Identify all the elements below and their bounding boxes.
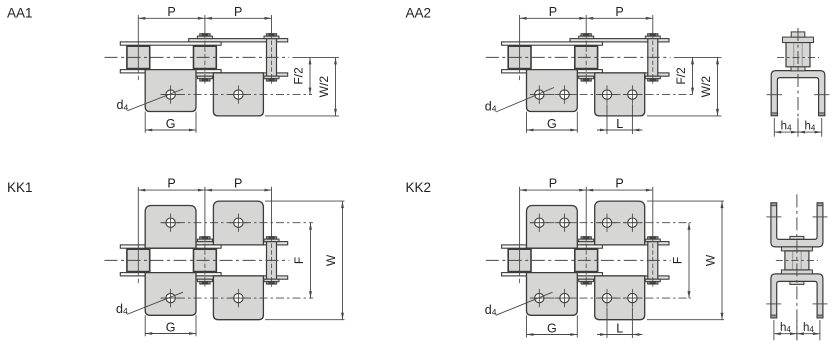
pin centerline [652,237,654,287]
pin washer top [264,239,279,242]
svg-text:G: G [166,117,176,131]
washer upper (end view) [781,247,812,251]
pin washer bottom [645,279,660,282]
connecting pin [267,39,277,77]
attachment hole link1 [530,85,549,103]
upper attachment plate link2 [595,201,645,245]
attachment hole link1 [555,289,574,307]
G extension line left [526,112,528,133]
L extension line right [631,308,633,338]
centerline extension to W/2 [674,56,722,58]
roller 1 [508,46,531,68]
d4 leader line [127,292,183,314]
cotter pin top [200,34,210,36]
pin centerline 1 [519,69,521,82]
cotter pin bottom [581,79,591,81]
strap arm end cap left [771,315,777,318]
lower attachment plate link1 [527,70,578,112]
W bottom extension line [265,319,345,321]
F dimension line [688,223,690,298]
P dimension line [520,189,653,191]
svg-text:L: L [616,117,623,131]
W/2 dimension line [335,57,337,116]
G extension line right [195,112,197,133]
svg-text:P: P [615,177,623,191]
strap arm end cap right [819,113,825,116]
roller 2 [575,46,598,68]
W top extension line [265,200,345,202]
inner link plate top bar [570,39,669,42]
cotter bump upper (end view) [790,236,804,239]
G dimension line [527,129,578,131]
lower attachment plate link1 [527,273,578,316]
extension line pin3 [652,187,654,237]
outer link plate top bar [120,245,221,248]
cotter pin bottom [200,282,210,284]
pin centerline [585,34,587,84]
extension line pin3 [271,15,273,34]
pin washer top [197,36,212,39]
lower hole centerline [530,297,691,299]
G dimension line [145,129,196,131]
d4 leader line [496,292,553,315]
strap arm end cap left [771,113,777,116]
roller 1 [127,46,150,68]
cotter pin bottom [648,79,658,81]
svg-text:AA1: AA1 [7,6,33,21]
bushing (end view) [785,251,809,270]
pin lines (end view) [792,251,794,269]
attachment hole link2 [623,85,642,103]
cotter pin bottom [648,282,658,284]
pin washer (end view) [783,37,814,42]
pin centerline 1 [137,272,139,285]
pin centerline 1 [137,69,139,82]
cotter pin top [266,34,276,36]
h4 dimension lines [774,131,821,133]
extension line pin2 [204,187,206,237]
inner link plate bottom bar [189,276,288,279]
cotter bump lower (end view) [790,281,804,284]
svg-text:P: P [167,177,175,191]
attachment hole link1 [555,85,574,103]
svg-text:F: F [292,257,306,264]
roller 2 [194,46,217,68]
cotter (end view) [791,32,805,37]
svg-text:W/2: W/2 [699,76,713,98]
lower attachment plate link1 [145,273,196,316]
G extension line right [195,315,197,336]
P dimension line [138,17,271,19]
chain centerline [105,56,290,58]
P dimension line [138,189,271,191]
h4 dimension lines [774,333,820,335]
bent attachment strap lower (end view) [771,274,823,318]
svg-text:AA2: AA2 [406,6,432,21]
cotter pin top [648,237,658,239]
svg-text:P: P [234,5,242,19]
pin lines (end view) [793,43,795,66]
G dimension line [527,334,578,336]
connecting pin [267,242,277,280]
pin centerline [204,237,206,287]
lower attachment plate link1 [145,70,196,112]
cotter pin top [200,237,210,239]
L extension line left [606,308,608,338]
W dimension line [721,201,723,320]
upper attachment hole link2 [598,214,617,232]
cotter pin bottom [200,79,210,81]
svg-text:KK2: KK2 [406,180,432,195]
svg-text:KK1: KK1 [7,180,33,195]
centerline extension to W/2 [293,56,340,58]
G dimension line [145,333,196,335]
strap arm end cap right [817,203,823,206]
pin centerline [585,237,587,287]
washer lower (end view) [781,270,812,274]
end view centerline [796,194,798,340]
svg-text:W/2: W/2 [317,76,331,98]
extension line pin2 [585,15,587,34]
d4 leader line [496,88,554,113]
roller 1 [508,249,531,271]
upper attachment hole link1 [530,214,549,232]
extension line pin3 [271,187,273,237]
pin washer top [579,239,594,242]
lower attachment plate link2 [213,73,263,116]
upper attachment plate link1 [145,206,196,249]
G extension line left [526,315,528,337]
pin centerline [271,237,273,287]
outer link plate top bar [502,42,603,45]
strap arm end cap left [771,203,777,206]
pin washer top [264,36,279,39]
W/2 bottom extension line [647,115,722,117]
svg-text:G: G [166,321,176,335]
pin washer top [579,36,594,39]
pin washer top [645,36,660,39]
outer link plate top bar [120,42,221,45]
upper attachment plate link2 [213,201,263,245]
svg-text:F/2: F/2 [674,67,688,85]
W top extension line [647,200,724,202]
L dimension line [597,334,642,336]
attachment hole centerline [530,94,695,96]
upper hole centerline [530,222,691,224]
inner link plate bottom bar [189,73,288,76]
pin centerline [652,34,654,84]
outer link plate bottom bar [120,70,221,73]
end view centerline [797,28,799,134]
end view horizontal centerline [776,259,818,261]
svg-text:G: G [547,117,557,131]
attachment hole marks (end view) [767,94,782,96]
extension line pin2 [585,187,587,237]
pin washer bottom [197,279,212,282]
svg-text:P: P [615,5,623,19]
cotter pin bottom [581,282,591,284]
pin washer bottom [264,279,279,282]
attachment hole link2 [598,85,617,103]
lower hole centerline [161,297,314,299]
svg-text:G: G [547,322,557,336]
bushing (end view) [786,43,810,67]
end view horizontal centerline [777,56,819,58]
outer link plate bottom bar [502,70,603,73]
W dimension line [342,201,344,320]
pin washer bottom [197,76,212,79]
upper attachment hole link2 [229,214,248,232]
svg-text:W: W [704,254,718,266]
pin washer bottom [579,279,594,282]
lower attachment plate link2 [213,276,263,320]
L extension line left [606,104,608,134]
attachment hole link2 [623,289,642,307]
cotter pin top [581,34,591,36]
G extension line right [576,112,578,133]
attachment hole marks (end view) [766,303,781,305]
inner link plate top bar [570,242,669,245]
W/2 dimension line [717,57,719,116]
d4 leader line [128,89,184,111]
chain centerline [486,56,671,58]
roller bump (end view) [791,66,805,70]
pin centerline [271,34,273,84]
chain centerline [486,259,671,261]
G extension line left [144,315,146,336]
svg-text:F: F [671,257,685,264]
inner link plate bottom bar [570,73,669,76]
chain centerline [105,259,290,261]
inner link plate bottom bar [570,276,669,279]
lower attachment plate link2 [595,276,645,320]
extension line pin3 [652,15,654,34]
svg-text:P: P [234,177,242,191]
outer link plate bottom bar [502,273,603,276]
upper attachment hole link2 [623,214,642,232]
F dimension line [310,223,312,298]
roller 2 [575,249,598,271]
cotter pin top [648,34,658,36]
svg-text:F/2: F/2 [292,67,306,85]
pin washer bottom [579,76,594,79]
inner link plate top bar [189,242,288,245]
attachment hole link1 [161,289,180,307]
G extension line left [144,112,146,133]
L dimension line [597,129,642,131]
attachment hole link1 [161,85,180,103]
connecting pin [648,39,658,77]
svg-text:P: P [549,5,557,19]
roller 2 [194,249,217,271]
P dimension line [520,17,653,19]
attachment hole link1 [530,289,549,307]
attachment hole link2 [229,289,248,307]
F/2 dimension line [692,57,694,94]
svg-text:P: P [549,177,557,191]
h4 extension lines [773,320,775,340]
G extension line right [576,315,578,337]
inner link plate top bar [189,39,288,42]
pin washer top [645,239,660,242]
connecting pin [648,242,658,280]
cotter pin bottom [266,282,276,284]
upper attachment plate link1 [527,206,578,249]
extension line pin1 [137,187,139,272]
lower attachment plate link2 [595,73,645,116]
svg-text:L: L [616,322,623,336]
W bottom extension line [647,319,724,321]
outer link plate bottom bar [120,273,221,276]
strap arm end cap right [817,315,823,318]
cotter pin top [266,237,276,239]
bent attachment strap (end view) [771,71,825,116]
attachment hole marks (end view) [766,216,781,218]
F/2 dimension line [309,57,311,94]
extension line pin1 [519,187,521,272]
bent attachment strap upper (end view) [771,203,823,247]
pin washer top [197,239,212,242]
W/2 bottom extension line [265,115,339,117]
roller 1 [127,249,150,271]
extension line pin1 [137,15,139,69]
svg-text:P: P [167,5,175,19]
svg-text:W: W [324,254,338,266]
h4 extension lines [773,118,775,137]
pin centerline 1 [519,272,521,285]
attachment hole link2 [598,289,617,307]
pin centerline [204,34,206,84]
L extension line right [631,104,633,134]
pin washer bottom [645,76,660,79]
upper hole centerline [161,222,314,224]
extension line pin1 [519,15,521,69]
extension line pin2 [204,15,206,34]
upper attachment hole link1 [161,214,180,232]
attachment hole centerline [161,94,313,96]
outer link plate top bar [502,245,603,248]
cotter pin bottom [266,79,276,81]
cotter pin top [581,237,591,239]
attachment hole link2 [229,85,248,103]
upper attachment hole link1 [555,214,574,232]
pin washer bottom [264,76,279,79]
